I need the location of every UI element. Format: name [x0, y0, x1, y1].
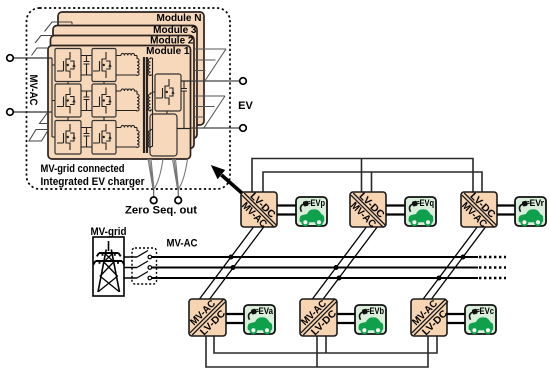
- MV-grid source box: [93, 237, 124, 296]
- transformer T3 secondary winding: [148, 130, 152, 148]
- three-phase line 3 dotted end: [479, 277, 506, 279]
- svg-text:MV-grid connected: MV-grid connected: [41, 163, 125, 175]
- svg-text:EVp: EVp: [311, 198, 326, 208]
- wire converter q to EVq: [386, 206, 405, 215]
- DC bus top line 2: [263, 172, 482, 192]
- MV-AC input terminal 1: [7, 55, 52, 62]
- wire EV+ output: [181, 80, 191, 82]
- converter r box: [459, 191, 497, 230]
- output converter U1 box: [153, 92, 168, 114]
- zero sequence fan 1: [148, 159, 163, 197]
- svg-text:EV: EV: [238, 100, 253, 112]
- junction pair a-p on line 2: [231, 265, 236, 270]
- three-phase line 3: [152, 277, 478, 279]
- wire converter c to EVc: [447, 314, 465, 323]
- zero sequence fan 2: [173, 159, 188, 197]
- EV output fan +: [194, 49, 226, 82]
- wire EV- output: [177, 128, 191, 130]
- svg-text:EVr: EVr: [530, 198, 545, 208]
- output capacitor C4: [181, 81, 187, 129]
- junction pair c-r on line 1: [461, 255, 466, 260]
- input fan phase B wires: [40, 112, 49, 124]
- converter b box: [299, 298, 339, 338]
- three-phase line 1 dotted end: [479, 256, 506, 258]
- EV output terminal -: [191, 125, 247, 132]
- breaker switch 3: [124, 272, 152, 280]
- svg-text:EVc: EVc: [480, 306, 495, 316]
- cell Q1: [55, 49, 81, 82]
- junction pair a-p on line 1: [229, 255, 234, 260]
- svg-text:MV-AC: MV-AC: [167, 238, 198, 250]
- EV load EVq: [405, 197, 436, 226]
- svg-text:EVa: EVa: [259, 306, 274, 316]
- zero sequence terminal 2: [175, 197, 182, 204]
- EV load EVb: [355, 305, 386, 334]
- svg-text:Module 1: Module 1: [146, 46, 190, 57]
- transformer T2 primary winding: [116, 89, 139, 111]
- module card Module N: [58, 12, 204, 125]
- svg-text:Zero Seq. out: Zero Seq. out: [125, 205, 197, 217]
- transmission tower icon: [93, 241, 124, 292]
- module 1 interior circuit: [52, 49, 191, 157]
- EV load EVa: [244, 305, 275, 334]
- dc-link capacitor C1: [81, 56, 92, 76]
- breaker switch 2: [124, 261, 152, 269]
- converter a box: [188, 298, 228, 338]
- input fan phase A wires: [32, 22, 73, 56]
- junction pair b-q on line 2: [334, 265, 339, 270]
- wire converter b to EVb: [337, 314, 355, 323]
- svg-text:Module N: Module N: [157, 13, 202, 24]
- three-phase line 1: [152, 256, 478, 258]
- junction pair b-q on line 3: [337, 276, 342, 281]
- junction pair c-r on line 3: [437, 276, 442, 281]
- zero sequence terminal 1: [150, 197, 157, 204]
- wire converter p to EVp: [277, 206, 296, 215]
- EV load EVc: [465, 305, 496, 334]
- cell Q6: [92, 121, 116, 155]
- transformer T1 primary winding: [116, 53, 139, 75]
- breaker switch 1: [124, 251, 152, 259]
- EV output terminal +: [191, 78, 247, 85]
- three-phase line 2 dotted end: [479, 266, 506, 268]
- converter q box: [348, 191, 386, 230]
- transformer T3 primary winding: [116, 125, 139, 147]
- input bus wire: [51, 58, 53, 137]
- svg-text:Module 3: Module 3: [153, 25, 197, 36]
- module card Module 1: [48, 46, 191, 160]
- input fan phase C wires: [29, 130, 49, 142]
- module card Module 3: [53, 25, 197, 139]
- svg-text:Integrated EV charger: Integrated EV charger: [41, 176, 146, 188]
- transformer T2 secondary winding: [148, 93, 152, 111]
- phase tap wires pair c-r: [423, 227, 485, 299]
- phase tap wires pair a-p: [200, 227, 264, 299]
- cell Q5: [55, 121, 81, 155]
- cell Q2: [92, 49, 116, 82]
- DC bus bottom drops converter b: [317, 336, 326, 367]
- svg-text:MV-AC: MV-AC: [27, 75, 39, 106]
- dc-link capacitor C3: [81, 128, 92, 148]
- arrow pointing to charger detail: [211, 165, 243, 194]
- three-phase line 2: [152, 267, 478, 269]
- transformer T1 secondary winding: [148, 58, 152, 76]
- secondary bus wire: [152, 58, 154, 147]
- wire converter a to EVa: [226, 314, 244, 323]
- svg-text:EVq: EVq: [420, 198, 435, 208]
- transformer core: [144, 57, 147, 153]
- circuit breaker dashed box: [132, 248, 157, 284]
- wire converter r to EVr: [497, 206, 515, 215]
- cell Q3: [55, 84, 81, 117]
- dc-link capacitor C2: [81, 91, 92, 111]
- DC bus bottom line 2: [206, 336, 428, 367]
- MV-AC input terminal 2: [7, 109, 52, 116]
- module card Module 2: [51, 36, 195, 149]
- DC bus top drops converter q: [362, 159, 372, 193]
- converter p box: [239, 191, 277, 230]
- EV load EVr: [515, 197, 546, 226]
- EV output fan -: [194, 96, 225, 129]
- converter c box: [410, 298, 450, 338]
- dashed boundary: MV-grid connected Integrated EV charger: [27, 8, 231, 189]
- EV load EVp: [296, 197, 327, 226]
- svg-text:EVb: EVb: [370, 306, 385, 316]
- DC bus top line 1: [252, 159, 473, 193]
- DC bus bottom line 1: [214, 336, 437, 353]
- cell Q4: [92, 84, 116, 117]
- svg-text:MV-grid: MV-grid: [91, 226, 127, 238]
- output filter box: [150, 114, 177, 156]
- phase tap wires pair b-q: [312, 227, 377, 299]
